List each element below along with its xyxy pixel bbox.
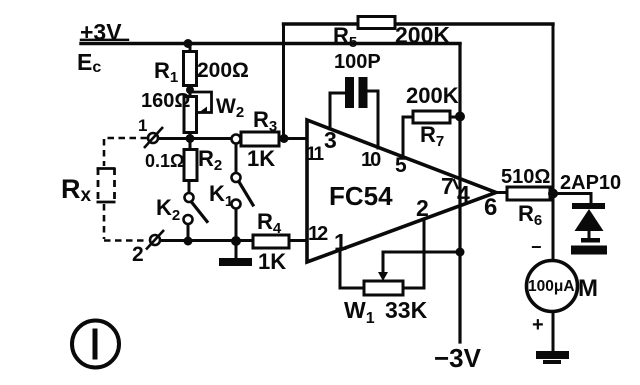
resistor R1 box (184, 52, 197, 86)
svg-text:1: 1 (334, 229, 347, 255)
figure number bar (93, 329, 98, 360)
wire ground stub K1 (235, 241, 238, 258)
wire R6 to diode corner (550, 192, 591, 195)
+3V underline (81, 39, 128, 41)
svg-text:2: 2 (132, 243, 144, 266)
svg-text:100P: 100P (334, 51, 381, 73)
junction dot node row (186, 134, 195, 143)
svg-text:100μA: 100μA (528, 278, 575, 295)
wire R7 right (450, 116, 460, 119)
wire W2 wiper bracket (190, 92, 212, 113)
switch K2 lower contact (184, 215, 193, 224)
svg-text:−3V: −3V (434, 343, 482, 373)
potentiometer W2 box (184, 97, 197, 133)
junction dot R1/W2 (186, 86, 194, 94)
capacitor C 100P left plate (345, 77, 354, 108)
svg-text:+3V: +3V (80, 19, 122, 45)
svg-text:1: 1 (138, 116, 147, 135)
svg-text:+: + (532, 314, 544, 336)
junction dot wiper -3V (456, 248, 465, 257)
junction dot output node (548, 189, 558, 199)
wire diode top (590, 194, 593, 205)
wire dashed Rx to node2 (104, 204, 146, 241)
resistor R2 box (184, 150, 197, 181)
svg-text:−: − (531, 237, 542, 257)
ground bar under K1 (219, 258, 252, 266)
diode D 2AP10 arrow (575, 209, 604, 231)
svg-text:11: 11 (306, 144, 325, 165)
svg-text:2AP10: 2AP10 (560, 172, 621, 194)
wire pin1 to W1 (340, 249, 365, 288)
wire R2 top stub (189, 143, 192, 150)
svg-text:7: 7 (441, 173, 454, 199)
svg-text:200Ω: 200Ω (197, 59, 249, 82)
svg-text:33K: 33K (385, 297, 428, 323)
wire K1 to bottom (235, 209, 238, 238)
svg-text:200K: 200K (406, 83, 459, 108)
contact 1 open circle (148, 133, 158, 143)
ground bar under meter small (543, 360, 561, 364)
wire W1 wiper to -3V (383, 252, 460, 275)
switch K1 lower contact (232, 200, 241, 209)
svg-text:1K: 1K (247, 146, 275, 171)
wire R2 to K2 (188, 180, 191, 193)
wire W1 right to pin2 (402, 219, 424, 288)
wire feedback top (284, 22, 554, 25)
wire left vertical input (282, 24, 285, 138)
svg-text:12: 12 (308, 223, 328, 245)
svg-text:M: M (578, 275, 598, 302)
wire R7 left leg to pin5 (403, 117, 413, 158)
wire K2 to bottom (187, 224, 190, 238)
pin 7 tick (454, 180, 458, 188)
wire +3V rail (81, 42, 460, 45)
diode D 2AP10 cathode bar (572, 203, 605, 209)
W2 wiper arrowhead (198, 107, 208, 114)
junction dot K1 bottom (231, 236, 241, 246)
wire K1 blade (239, 181, 254, 205)
resistor R7 box (413, 111, 450, 123)
svg-text:10: 10 (361, 149, 381, 171)
potentiometer W1 box (364, 281, 403, 295)
wire -3V vertical (458, 44, 461, 342)
wire R1 top stub (189, 43, 192, 52)
contact 1 slash (144, 127, 163, 148)
wire output apex to R6 (496, 191, 507, 194)
svg-text:200K: 200K (395, 22, 450, 48)
svg-text:6: 6 (484, 194, 497, 221)
resistor R4 box (253, 235, 289, 248)
svg-text:FC54: FC54 (329, 181, 393, 211)
ground bar under diode thick (571, 246, 607, 255)
svg-text:4: 4 (457, 181, 470, 207)
contact 2 open circle (150, 235, 160, 245)
switch K1 top terminal at R3 (232, 135, 241, 144)
wire capacitor left leg (330, 93, 345, 129)
resistor Rx dashed box (97, 168, 116, 202)
wire W2 bottom stub (189, 132, 192, 140)
wire diode bottom (588, 230, 591, 239)
resistor R6 box (507, 187, 550, 200)
wire K2 blade (192, 202, 208, 222)
ground bar under meter (536, 351, 569, 359)
wire R1-W2 stub (189, 85, 192, 97)
wire dashed node1 to Rx (104, 138, 147, 166)
svg-text:2: 2 (416, 195, 429, 221)
wire node to meter (552, 194, 555, 261)
meter M body (527, 261, 578, 312)
wire right vertical to output node (552, 24, 555, 194)
junction dot R3 right (280, 134, 289, 143)
W1 wiper arrowhead (378, 272, 388, 281)
figure number circle (72, 321, 119, 368)
switch K1 upper contact (232, 173, 241, 182)
wire bottom row (160, 239, 306, 242)
junction dot R7 right (455, 112, 465, 122)
svg-text:5: 5 (395, 154, 407, 177)
capacitor C 100P right plate (359, 77, 368, 108)
svg-text:510Ω: 510Ω (501, 166, 550, 188)
svg-text:0.1Ω: 0.1Ω (145, 151, 184, 171)
resistor R3 box (241, 132, 279, 146)
resistor R5 box (358, 17, 395, 29)
svg-text:1K: 1K (258, 249, 286, 274)
wire node row (157, 137, 232, 140)
switch K2 upper contact (185, 193, 194, 202)
wire meter to ground (552, 311, 555, 352)
junction dot K2 bottom (184, 237, 193, 246)
ground bar under diode thin (581, 238, 600, 243)
svg-text:3: 3 (324, 127, 337, 153)
wire R3circle to K1 (235, 144, 238, 173)
wire R3 right (279, 137, 306, 140)
junction dot rail/R1 (184, 39, 193, 48)
contact 2 slash (146, 230, 164, 250)
wire capacitor right leg (367, 91, 378, 148)
svg-text:160Ω: 160Ω (141, 90, 190, 112)
op-amp U1 FC54 triangle (307, 120, 496, 262)
